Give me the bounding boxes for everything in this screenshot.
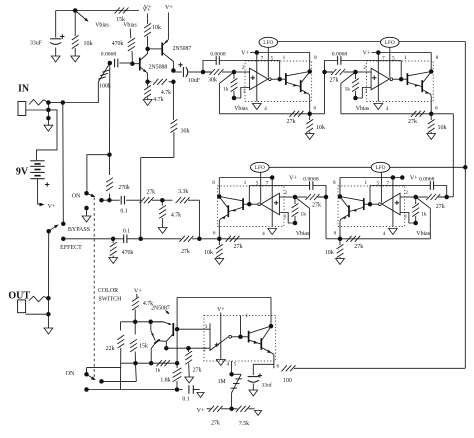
wire U2 V+ feed bbox=[372, 52, 432, 54]
ground U1 pin 4 bbox=[252, 104, 261, 110]
svg-text:ON: ON bbox=[66, 371, 75, 377]
ground ON switch bbox=[86, 208, 88, 216]
LFO oval U3 bbox=[250, 162, 269, 172]
wire U1 pin7-pin4 vertical bbox=[256, 53, 258, 102]
ground color 27k bbox=[185, 377, 194, 383]
resistor U1 10k to ground bbox=[309, 114, 311, 120]
svg-text:27k: 27k bbox=[181, 249, 190, 255]
node IN tip bbox=[46, 100, 51, 105]
wire U1 feedback rail bbox=[219, 113, 309, 115]
node ON common bbox=[84, 191, 89, 196]
ground LFO bias bbox=[254, 411, 261, 416]
svg-text:EFFECT: EFFECT bbox=[60, 245, 82, 251]
wire U2 pin 8 drop bbox=[430, 53, 432, 72]
node Q2 emitter top bbox=[148, 320, 153, 325]
wire U4 feedforward top bbox=[434, 186, 447, 198]
op-amp U3 bbox=[261, 193, 279, 215]
transistor U1 darlington Q2 bbox=[300, 80, 302, 92]
dashed box U4 OTA bbox=[338, 186, 405, 227]
svg-text:2N5087: 2N5087 bbox=[151, 306, 170, 312]
svg-text:100k: 100k bbox=[99, 84, 111, 90]
svg-text:4: 4 bbox=[264, 106, 267, 112]
svg-text:9V: 9V bbox=[16, 166, 29, 177]
node 15k top bbox=[133, 320, 138, 325]
svg-text:0.1: 0.1 bbox=[120, 209, 127, 215]
resistor 27k color to ground bbox=[187, 348, 189, 352]
wire color opamp pin2 feed bbox=[166, 347, 210, 349]
wire U1 V+ feed bbox=[250, 52, 310, 54]
node 1.8k top bbox=[175, 361, 180, 366]
svg-text:10k: 10k bbox=[152, 25, 161, 31]
svg-text:470k: 470k bbox=[112, 41, 124, 47]
svg-text:Vbias: Vbias bbox=[123, 22, 137, 28]
svg-text:0.1: 0.1 bbox=[123, 228, 130, 234]
wire U3 V+ feed bbox=[219, 177, 272, 179]
capacitor 33uF LFO bbox=[248, 376, 259, 378]
wire color collector rail riser bbox=[176, 298, 178, 364]
svg-text:3.3k: 3.3k bbox=[178, 189, 188, 195]
transistor U1 darlington Q1 bbox=[285, 73, 287, 85]
resistor U3 input 27k bbox=[306, 194, 311, 200]
node U4 pin 6 output bbox=[338, 237, 343, 242]
resistor 22k bbox=[120, 322, 122, 331]
node IN to bypass line bbox=[61, 100, 66, 105]
node U3 pin 8 bbox=[217, 194, 222, 199]
svg-text:8: 8 bbox=[333, 180, 336, 186]
svg-text:Vbias: Vbias bbox=[416, 231, 430, 237]
svg-text:LFO: LFO bbox=[255, 165, 265, 171]
svg-text:V+: V+ bbox=[410, 176, 418, 182]
wire U4 feedback rail bbox=[340, 238, 430, 240]
wire U3 pin 8 drop bbox=[218, 178, 220, 197]
wire U4 pin 8 drop bbox=[339, 178, 341, 197]
LFO oval U4 bbox=[371, 162, 390, 172]
svg-text:30k: 30k bbox=[181, 129, 190, 135]
wire U1 pin 3 bbox=[234, 88, 250, 99]
ground 33uF LFO bbox=[249, 390, 258, 396]
wire U3 pin 3 bbox=[279, 213, 295, 224]
node 2N5087 collector bbox=[171, 68, 176, 73]
resistor U1 1k bbox=[233, 72, 235, 79]
svg-text:1k: 1k bbox=[300, 211, 306, 217]
node U1 op-amp output bbox=[277, 77, 282, 82]
wire battery to V+ bbox=[38, 179, 40, 204]
jack OUT bbox=[18, 300, 26, 313]
wire LFO emitter out bbox=[253, 363, 274, 365]
color bottom rail 1 bbox=[121, 362, 178, 364]
svg-text:4: 4 bbox=[227, 362, 230, 368]
battery 9V bbox=[30, 160, 44, 162]
wire color throw to 15k rail bbox=[102, 380, 137, 382]
node supply rail junction bbox=[73, 8, 78, 13]
node ON unused throw bbox=[84, 206, 89, 211]
node U2 input bbox=[322, 70, 327, 75]
resistor 7.5k LFO bias bbox=[236, 406, 241, 412]
svg-text:8: 8 bbox=[436, 55, 439, 61]
svg-text:0.0068: 0.0068 bbox=[303, 177, 319, 183]
svg-text:2N5088: 2N5088 bbox=[149, 64, 168, 70]
node buffer emitter bbox=[145, 80, 150, 85]
svg-text:2: 2 bbox=[405, 190, 408, 196]
svg-text:7: 7 bbox=[387, 180, 390, 186]
node U4 inverting input bbox=[413, 195, 418, 200]
svg-text:4.7k: 4.7k bbox=[161, 90, 171, 96]
capacitor U2 0.0068 feedforward bbox=[337, 56, 339, 65]
svg-text:6: 6 bbox=[277, 363, 280, 369]
svg-text:0.1: 0.1 bbox=[182, 397, 189, 403]
node stage4 V+ wire end bbox=[400, 175, 405, 180]
svg-text:27k: 27k bbox=[146, 190, 155, 196]
svg-text:V+: V+ bbox=[144, 5, 152, 11]
op-amp LFO bbox=[210, 323, 228, 350]
capacitor U4 0.0068 feedforward bbox=[429, 181, 431, 190]
node LFO rail mid tap bbox=[463, 165, 468, 170]
svg-text:27k: 27k bbox=[234, 244, 243, 250]
node U1 inverting input bbox=[232, 70, 237, 75]
svg-text:10k: 10k bbox=[316, 125, 325, 131]
svg-text:SWITCH: SWITCH bbox=[99, 296, 123, 302]
node color opamp pin3 tap bbox=[175, 327, 180, 332]
svg-text:V+: V+ bbox=[134, 288, 142, 294]
wire LFO rail mid row bbox=[269, 166, 371, 168]
svg-text:22k: 22k bbox=[106, 346, 115, 352]
svg-text:8: 8 bbox=[314, 55, 317, 61]
node U1 pin 6 output bbox=[307, 112, 312, 117]
svg-text:Vbias: Vbias bbox=[234, 106, 248, 112]
resistor 4.7k color bbox=[136, 294, 138, 298]
transistor U2 darlington Q2 bbox=[421, 80, 423, 92]
node EFFECT throw bbox=[61, 237, 66, 242]
node U3 Vbias bbox=[293, 221, 298, 226]
ground buffer 4.7k bbox=[143, 100, 152, 106]
svg-text:100: 100 bbox=[283, 378, 292, 384]
output circle LFO bbox=[229, 335, 232, 338]
node U3 pin 7 V+ bbox=[270, 175, 275, 180]
svg-text:10k: 10k bbox=[325, 250, 334, 256]
wire U1 pin 5 bbox=[267, 47, 269, 77]
svg-text:IN: IN bbox=[18, 84, 30, 95]
node U1 pin 7 V+ bbox=[255, 50, 260, 55]
jack IN bbox=[18, 102, 26, 116]
wire U4 V+ feed bbox=[340, 177, 404, 179]
resistor 470k buffer bbox=[129, 29, 132, 39]
wire U2 pin 3 bbox=[356, 88, 372, 99]
resistor 30k buffer to rail bbox=[172, 82, 174, 120]
svg-text:1k: 1k bbox=[345, 86, 351, 92]
ground U3 10k bbox=[215, 259, 224, 265]
transistor LFO darlington Q1 bbox=[241, 336, 249, 338]
node U4 pin 8 bbox=[338, 194, 343, 199]
capacitor 0.0068 input bbox=[114, 59, 116, 68]
wire U4 pin1 drop bbox=[369, 186, 371, 205]
node LFO bias junction bbox=[229, 407, 234, 412]
svg-text:1: 1 bbox=[244, 180, 247, 186]
LFO oval U2 bbox=[381, 37, 400, 47]
node 4.7k right bbox=[171, 80, 176, 85]
node color 27k tap bbox=[186, 346, 191, 351]
node U1 Vbias bbox=[232, 96, 237, 101]
wire LFO rail top row bbox=[277, 41, 380, 43]
resistor 27k mixer out bbox=[179, 236, 184, 242]
transistor U4 darlington Q2 bbox=[348, 205, 350, 217]
wire bypass line bbox=[62, 103, 65, 224]
wire U2 feedback rail bbox=[341, 113, 431, 115]
output circle U3 bbox=[258, 203, 261, 206]
Vbias pointer arrow bbox=[75, 11, 87, 21]
svg-text:V+: V+ bbox=[289, 176, 297, 182]
svg-text:10k: 10k bbox=[84, 41, 93, 47]
svg-text:LFO: LFO bbox=[385, 40, 395, 46]
transistor U3 darlington Q2 bbox=[227, 205, 229, 217]
wire input node riser bbox=[109, 63, 111, 155]
resistor 1.8k bbox=[176, 363, 178, 368]
node Q2 collector rail bbox=[149, 361, 154, 366]
ground color 0.1 bbox=[197, 393, 204, 398]
svg-text:ON: ON bbox=[72, 194, 81, 200]
wire U4 pin 3 bbox=[400, 213, 416, 224]
wire color top feedback bbox=[177, 297, 271, 299]
node U2 pin 8 bbox=[429, 69, 434, 74]
node OUT sleeve bbox=[46, 312, 51, 317]
ground IN jack bbox=[47, 118, 49, 125]
svg-text:27k: 27k bbox=[354, 244, 363, 250]
node U1 input bbox=[201, 70, 206, 75]
node bypass common bbox=[46, 229, 51, 234]
resistor 27k upper bbox=[140, 197, 145, 203]
capacitor U1 0.0068 feedforward bbox=[215, 56, 217, 65]
svg-text:27k: 27k bbox=[408, 119, 417, 125]
svg-text:10uF: 10uF bbox=[188, 78, 201, 84]
node U4 input bbox=[444, 195, 449, 200]
node U4 op-amp output bbox=[368, 202, 373, 207]
svg-text:1: 1 bbox=[365, 180, 368, 186]
capacitor 0.1 upper bbox=[109, 199, 119, 201]
svg-text:1M: 1M bbox=[218, 379, 226, 385]
svg-text:1: 1 bbox=[283, 55, 286, 61]
svg-text:V+: V+ bbox=[241, 51, 249, 57]
ground U4 10k bbox=[336, 259, 345, 265]
resistor U4 feedback 27k bbox=[346, 236, 351, 242]
svg-text:1k: 1k bbox=[223, 86, 229, 92]
color bottom rail 2 bbox=[87, 389, 183, 391]
resistor U2 feedback 27k bbox=[411, 111, 416, 117]
node LFO output bbox=[238, 335, 243, 340]
node U4 Vbias bbox=[413, 221, 418, 226]
wire top-left supply rail bbox=[56, 10, 139, 12]
svg-text:7: 7 bbox=[261, 55, 264, 61]
node ON throw b bbox=[107, 198, 112, 203]
ground 470k bbox=[109, 258, 118, 264]
svg-text:COLOR: COLOR bbox=[98, 288, 118, 294]
resistor U4 input 27k bbox=[426, 194, 431, 200]
wire U1 pin1 drop bbox=[279, 61, 281, 80]
wire stage1 to stage2 bbox=[310, 113, 325, 115]
svg-text:Vbias: Vbias bbox=[356, 106, 370, 112]
node BYPASS throw bbox=[61, 222, 66, 227]
wire LFO pin7-pin4 bbox=[220, 313, 222, 360]
transistor 2N5087 buffer bbox=[161, 43, 163, 56]
wire LFO pin5 bbox=[231, 361, 233, 374]
wire U1 pin 8 drop bbox=[309, 53, 311, 72]
svg-text:1k: 1k bbox=[155, 367, 161, 373]
wire U3 pin1 drop bbox=[248, 186, 250, 205]
resistor 4.7k horizontal bbox=[148, 81, 152, 83]
wire U4 pin7-pin4 vertical bbox=[392, 178, 394, 227]
transistor 2N5088 bbox=[132, 63, 139, 65]
node mixer riser junction bbox=[138, 237, 143, 242]
svg-text:7.5k: 7.5k bbox=[239, 421, 249, 427]
svg-text:33uF: 33uF bbox=[30, 40, 43, 46]
wire U4 pin 5 bbox=[380, 172, 382, 202]
capacitor 10uF bbox=[172, 71, 174, 73]
svg-text:4: 4 bbox=[262, 231, 265, 237]
wire U2 pin1 drop bbox=[400, 61, 402, 80]
op-amp U4 bbox=[382, 193, 400, 215]
svg-text:4.7k: 4.7k bbox=[153, 97, 163, 103]
node color lower throw bbox=[84, 387, 89, 392]
dashed box U2 OTA bbox=[367, 61, 434, 102]
node 2N5088 collector bbox=[145, 47, 150, 52]
svg-text:0.0068: 0.0068 bbox=[101, 52, 117, 58]
wire stage2 to stage4 bbox=[431, 113, 453, 115]
svg-text:0.0068: 0.0068 bbox=[332, 52, 348, 58]
node ON throw a bbox=[99, 198, 104, 203]
resistor U2 input 27k bbox=[331, 69, 336, 75]
node 1.8k bottom bbox=[175, 387, 180, 392]
switch ON lever bbox=[87, 193, 93, 196]
resistor U1 feedback 27k bbox=[290, 111, 295, 117]
svg-text:6: 6 bbox=[435, 105, 438, 111]
node Q1 collector bbox=[164, 346, 169, 351]
transistor Q1 color 2N5087 bbox=[151, 321, 163, 323]
node U2 Vbias bbox=[353, 96, 358, 101]
wire U3 pin 5 bbox=[260, 172, 262, 202]
dashed gang line bbox=[93, 198, 95, 378]
svg-text:8: 8 bbox=[212, 180, 215, 186]
svg-text:LFO: LFO bbox=[375, 165, 385, 171]
svg-text:1: 1 bbox=[246, 313, 249, 319]
dashed box LFO bbox=[204, 315, 276, 361]
svg-text:470k: 470k bbox=[122, 250, 134, 256]
wire U1 feedforward top bbox=[203, 61, 216, 73]
wire IN jack column bbox=[47, 103, 49, 119]
dashed box U3 OTA bbox=[217, 186, 284, 227]
node U3 op-amp output bbox=[247, 202, 252, 207]
node LFO pin5 1M bbox=[229, 372, 234, 377]
dashed box U1 OTA bbox=[245, 61, 312, 102]
resistor U3 10k to ground bbox=[218, 239, 220, 245]
capacitor U3 0.0068 feedforward bbox=[309, 181, 311, 190]
transistor U3 darlington Q1 bbox=[242, 198, 244, 210]
svg-text:1.8k: 1.8k bbox=[160, 378, 170, 384]
svg-text:2: 2 bbox=[242, 65, 245, 71]
wire LFO bias rail bbox=[207, 408, 211, 410]
svg-text:6: 6 bbox=[334, 230, 337, 236]
svg-text:7: 7 bbox=[266, 180, 269, 186]
resistor U1 input 30k bbox=[210, 69, 215, 75]
svg-text:V+: V+ bbox=[48, 204, 56, 210]
ground LFO pin4 bbox=[216, 360, 225, 366]
switch bypass lever bbox=[49, 226, 57, 231]
svg-text:4: 4 bbox=[383, 231, 386, 237]
ground U2 pin 4 bbox=[374, 104, 383, 110]
wire U3 feedback rail bbox=[219, 238, 309, 240]
svg-text:10k: 10k bbox=[438, 125, 447, 131]
resistor 15k bbox=[134, 322, 136, 335]
svg-text:5: 5 bbox=[256, 180, 259, 186]
output circle U1 bbox=[268, 78, 271, 81]
node U3 input bbox=[324, 195, 329, 200]
svg-text:0.0068: 0.0068 bbox=[419, 177, 435, 183]
node U3 pin 6 output bbox=[217, 237, 222, 242]
resistor 3.3k bbox=[162, 199, 172, 201]
node 2N5088 base bbox=[130, 61, 135, 65]
resistor 15k bbox=[115, 8, 120, 14]
svg-text:V+: V+ bbox=[363, 51, 371, 57]
svg-text:27k: 27k bbox=[287, 119, 296, 125]
output circle U2 bbox=[390, 78, 393, 81]
svg-text:27k: 27k bbox=[436, 204, 445, 210]
wire color common stub bbox=[86, 368, 88, 375]
wire U3 pin7-pin4 vertical bbox=[271, 178, 273, 227]
transistor U2 darlington Q1 bbox=[406, 73, 408, 85]
resistor 1k color bbox=[157, 360, 162, 366]
node 470k tap bbox=[111, 237, 116, 242]
svg-text:15k: 15k bbox=[139, 344, 148, 350]
node 270k top bbox=[107, 152, 112, 157]
resistor 4.7k to ground bbox=[161, 200, 163, 205]
node IN sleeve bbox=[46, 116, 51, 121]
svg-text:1: 1 bbox=[404, 55, 407, 61]
svg-text:0.0068: 0.0068 bbox=[210, 52, 226, 58]
ground 4.7k mixer bbox=[158, 228, 167, 234]
ground U2 10k bbox=[427, 134, 436, 140]
resistor U3 1k bbox=[294, 197, 296, 204]
node 15k bottom bbox=[133, 361, 138, 366]
wire mixer rail bbox=[63, 238, 124, 240]
resistor 100 LFO out bbox=[273, 364, 275, 368]
svg-text:5: 5 bbox=[377, 180, 380, 186]
svg-text:5: 5 bbox=[271, 55, 274, 61]
svg-text:V+: V+ bbox=[217, 307, 225, 313]
wire buffer to mixer rail bbox=[141, 157, 174, 159]
svg-text:33uf: 33uf bbox=[261, 382, 271, 389]
svg-text:V+: V+ bbox=[197, 408, 205, 414]
ground 10k supply bbox=[71, 56, 80, 62]
svg-text:30k: 30k bbox=[208, 77, 217, 83]
node IN ring bbox=[46, 108, 51, 113]
svg-text:5: 5 bbox=[392, 55, 395, 61]
node U2 inverting input bbox=[353, 70, 358, 75]
capacitor 0.1 color bbox=[188, 385, 190, 394]
ground OUT jack bbox=[47, 314, 49, 328]
svg-text:5: 5 bbox=[234, 362, 237, 368]
svg-text:3: 3 bbox=[205, 324, 208, 330]
op-amp U2 bbox=[371, 68, 389, 90]
svg-text:4.7k: 4.7k bbox=[171, 212, 181, 218]
node U2 op-amp output bbox=[399, 77, 404, 82]
svg-text:Vbias: Vbias bbox=[296, 231, 310, 237]
svg-text:2: 2 bbox=[363, 65, 366, 71]
node 3.3k rail tap bbox=[197, 237, 202, 242]
transistor Q2 color 2N5087 bbox=[150, 322, 152, 331]
node input cap bbox=[108, 61, 113, 66]
wire ON switch loop bbox=[87, 155, 110, 194]
svg-text:270k: 270k bbox=[118, 185, 130, 191]
resistor U2 1k bbox=[355, 72, 357, 79]
resistor U2 10k to ground bbox=[430, 114, 432, 120]
svg-text:2: 2 bbox=[285, 190, 288, 196]
